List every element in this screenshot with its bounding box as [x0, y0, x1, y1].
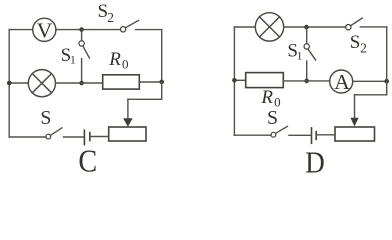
wire: C top rail left segment — [9, 29, 33, 31]
switch S2 (C) — [120, 20, 138, 32]
label S1 (C) — [61, 45, 76, 66]
node: D left junction — [232, 78, 237, 83]
svg-text:2: 2 — [107, 10, 114, 25]
label R0 (C) — [108, 49, 128, 72]
switch S2 (D) — [346, 18, 363, 30]
switch S (C) — [46, 128, 62, 139]
node: C top junction — [79, 27, 84, 32]
wire: D S1 upper lead — [306, 27, 308, 44]
svg-text:0: 0 — [122, 57, 129, 72]
wire: C middle rail left segment — [9, 82, 28, 84]
wire: D wiper jog vertical — [386, 81, 388, 95]
svg-text:S: S — [350, 32, 361, 53]
wire: D left vertical — [233, 27, 235, 135]
label S2 (C) — [98, 1, 114, 25]
svg-text:R: R — [108, 49, 121, 70]
node: C S1 bottom junction — [79, 81, 84, 86]
resistor R0 (C) — [103, 75, 140, 89]
wire: C middle rail middle segment — [56, 82, 103, 84]
wire: C right vertical — [161, 30, 163, 82]
wire: D middle rail left lead — [234, 79, 245, 81]
wire: D resistor to ammeter — [283, 80, 329, 82]
node: D top junction — [304, 25, 309, 30]
wire: D S1 lower lead — [306, 61, 308, 81]
wire: D top rail middle segment — [284, 26, 346, 28]
lamp (C) — [28, 70, 55, 97]
svg-text:1: 1 — [70, 55, 76, 67]
wire: C bottom rail left segment — [9, 136, 46, 138]
switch S1 (C) — [79, 41, 90, 58]
wire: D right vertical — [386, 27, 388, 81]
wire: C wiper jog vertical — [161, 82, 163, 99]
lamp (D) — [255, 13, 283, 41]
node: C right junction — [159, 80, 164, 85]
wire: C resistor to right junction — [139, 81, 161, 83]
svg-text:1: 1 — [297, 50, 303, 62]
wire: C top rail middle segment — [56, 29, 121, 31]
node: D right junction — [384, 79, 389, 84]
rheostat (C) — [109, 127, 146, 141]
wiper arrow (D) — [350, 118, 358, 127]
battery (C) — [84, 130, 89, 144]
svg-text:V: V — [37, 19, 53, 43]
svg-text:D: D — [305, 145, 325, 174]
svg-text:S: S — [40, 107, 51, 129]
battery (D) — [312, 128, 317, 143]
svg-text:S: S — [267, 107, 278, 129]
switch S1 (D) — [304, 44, 316, 60]
wire: D top rail right segment — [360, 26, 386, 28]
svg-text:A: A — [334, 70, 350, 94]
wire: D ammeter to right junction — [353, 80, 387, 82]
wire: D wiper stem — [354, 95, 356, 118]
wire: D battery to switch — [289, 134, 311, 136]
wire: D bottom rail left segment — [234, 134, 271, 136]
label R0 (D) — [260, 87, 280, 109]
wire: D top rail left segment — [234, 26, 255, 28]
wire: D wiper jog horizontal — [355, 94, 387, 96]
ammeter A (D) — [330, 70, 353, 94]
wire: C battery to switch — [64, 136, 84, 138]
label S2 (D) — [350, 32, 367, 56]
svg-text:2: 2 — [360, 41, 367, 56]
wiper arrow (C) — [123, 118, 133, 127]
svg-text:R: R — [260, 87, 273, 108]
wire: C top rail right segment — [136, 29, 162, 31]
wire: C wiper jog horizontal — [128, 98, 162, 100]
svg-text:C: C — [78, 144, 97, 175]
wire: C S1 upper lead — [81, 30, 83, 41]
label S1 (D) — [287, 41, 302, 63]
wire: C wiper stem — [127, 99, 129, 119]
node: D S1 bottom junction — [304, 79, 309, 84]
voltmeter V (C) — [33, 18, 56, 42]
node: C left junction — [7, 81, 12, 86]
wire: C rheostat to battery — [91, 136, 109, 138]
wire: D rheostat to battery — [317, 134, 335, 136]
wire: C left vertical — [8, 30, 10, 137]
rheostat (D) — [335, 127, 375, 141]
wire: C S1 lower lead — [81, 59, 83, 83]
resistor R0 (D) — [246, 73, 284, 88]
switch S (D) — [271, 126, 288, 137]
